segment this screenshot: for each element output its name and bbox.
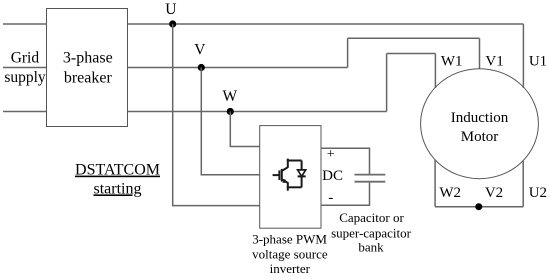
wire phase V riser <box>347 38 349 67</box>
wire DC bus top <box>321 148 370 174</box>
wire W tap down <box>230 112 259 147</box>
wire DC bus bottom <box>321 183 370 206</box>
wire motor star link <box>435 206 523 208</box>
svg-text:W1: W1 <box>441 53 463 69</box>
svg-text:U: U <box>165 1 176 18</box>
wire V tap down <box>201 68 259 175</box>
transistor Q1 emitter arrow <box>283 179 287 182</box>
svg-text:+: + <box>327 147 335 162</box>
wire W1 drop to motor <box>434 54 436 89</box>
wire phase V horizontal left stub <box>3 67 47 69</box>
transistor Q1 body bar <box>281 169 283 182</box>
node V junction dot <box>198 64 205 71</box>
wire V1 drop to motor <box>479 38 481 69</box>
svg-text:V: V <box>194 42 206 59</box>
svg-text:Capacitor or: Capacitor or <box>339 210 404 225</box>
transistor Q1 gate bar <box>278 170 280 180</box>
wire phase V upper run <box>348 37 480 39</box>
transistor Q1 emitter lead <box>282 180 288 191</box>
wire phase U horizontal left stub <box>3 23 47 25</box>
svg-text:breaker: breaker <box>64 70 113 87</box>
svg-text:U2: U2 <box>529 185 547 201</box>
wire phase W horizontal left stub <box>3 111 47 113</box>
svg-text:-: - <box>328 190 333 206</box>
svg-text:V2: V2 <box>485 185 503 201</box>
svg-text:Grid: Grid <box>11 50 40 67</box>
wire phase U horizontal main run <box>128 23 524 25</box>
svg-text:Induction: Induction <box>451 110 509 126</box>
svg-text:inverter: inverter <box>270 261 311 276</box>
wire U2 drop <box>522 161 524 207</box>
diode D1 triangle <box>298 170 306 177</box>
wire collector-to-diode top rail <box>287 160 302 162</box>
diode D1 cathode lead <box>301 176 303 187</box>
wire emitter-to-diode bottom rail <box>287 186 302 188</box>
breaker box <box>47 9 128 127</box>
motor M1 body (induction motor) <box>421 69 539 179</box>
transistor Q1 collector lead <box>282 159 288 171</box>
diode D1 cathode bar <box>298 175 306 177</box>
wire phase V horizontal run <box>128 67 348 69</box>
svg-text:3-phase: 3-phase <box>63 50 113 67</box>
svg-text:bank: bank <box>358 240 384 255</box>
svg-text:V1: V1 <box>485 53 503 69</box>
transistor Q1 IGBT with anti-parallel diode <box>273 159 306 191</box>
svg-text:U1: U1 <box>529 53 547 69</box>
inverter box (3-phase PWM voltage source inverter) <box>260 126 321 229</box>
wire phase W horizontal run <box>128 111 387 113</box>
node W junction dot <box>227 108 234 115</box>
transistor Q1 gate lead <box>273 174 280 176</box>
node V2 junction dot (star point) <box>475 203 482 210</box>
wire U tap down <box>173 24 260 206</box>
capacitor C1 bottom plate <box>355 181 386 183</box>
wire W2 drop <box>434 160 436 207</box>
svg-text:starting: starting <box>94 180 142 197</box>
node U junction dot <box>169 20 176 27</box>
svg-text:3-phase PWM: 3-phase PWM <box>252 231 327 246</box>
wire phase W upper run <box>387 53 436 55</box>
svg-text:super-capacitor: super-capacitor <box>331 225 412 240</box>
diode D1 anode lead <box>301 161 303 171</box>
svg-text:Motor: Motor <box>461 129 499 145</box>
svg-text:W2: W2 <box>439 185 461 201</box>
svg-text:voltage source: voltage source <box>252 247 328 262</box>
svg-text:supply: supply <box>4 69 46 86</box>
wire phase W riser <box>386 54 388 112</box>
svg-text:DSTATCOM: DSTATCOM <box>75 162 160 179</box>
svg-text:W: W <box>222 88 237 105</box>
svg-text:DC: DC <box>322 168 343 184</box>
capacitor C1 top plate <box>355 174 386 176</box>
wire U1 drop to motor <box>522 24 524 88</box>
